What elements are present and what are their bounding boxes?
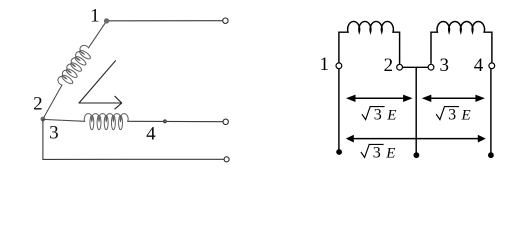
svg-text:E: E	[385, 145, 395, 161]
inductor winding 1-2 (diagonal coil)	[56, 44, 95, 90]
terminal 1 (open circle)	[336, 63, 342, 69]
svg-text:E: E	[461, 108, 471, 124]
voltage arrow between 1 and 2/3	[354, 97, 405, 99]
svg-text:3: 3	[448, 107, 456, 124]
junction dot under 2-3	[414, 152, 420, 158]
svg-text:3: 3	[49, 123, 59, 144]
svg-text:4: 4	[474, 55, 484, 76]
terminal 4 (open circle)	[489, 63, 495, 69]
voltage arrow between 2/3 and 4	[430, 97, 477, 99]
wire node1 to top terminal	[109, 20, 223, 22]
svg-text:E: E	[386, 108, 396, 124]
wire 2-3 midpoint down to node	[415, 67, 417, 153]
wire node2 down	[42, 119, 44, 159]
svg-text:2: 2	[384, 55, 394, 76]
phase angle symbol (slanted line)	[79, 61, 116, 103]
value label sqrt(3)E (left span)	[362, 107, 396, 124]
terminal (bottom phase lead)	[224, 157, 229, 162]
junction dot under terminal 1	[336, 149, 342, 155]
value label sqrt(3)E (bottom span)	[361, 144, 395, 161]
svg-text:4: 4	[146, 123, 156, 144]
wire terminal1 down to node	[338, 69, 340, 150]
wire node2/3 to coil 3-4	[43, 119, 85, 121]
value label sqrt(3)E (right span)	[436, 107, 470, 124]
wire diagonal coil to node1	[89, 21, 107, 48]
terminal (middle phase lead)	[223, 119, 228, 124]
node 2 (dot)	[41, 117, 46, 122]
inductor winding 1-2 (right figure)	[339, 21, 400, 64]
voltage arrow across bottom	[352, 138, 479, 140]
wire bottom to terminal	[43, 158, 224, 160]
terminal 2 (open circle)	[397, 64, 403, 70]
svg-text:1: 1	[90, 5, 100, 26]
terminal 3 (open circle)	[428, 64, 434, 70]
inductor winding 3-4 (right figure)	[431, 21, 492, 63]
wire coil to node4 and middle terminal	[128, 120, 223, 122]
inductor winding 3-4 (horizontal coil)	[84, 114, 128, 130]
svg-text:3: 3	[374, 107, 382, 124]
wire joining terminals 2 and 3	[403, 66, 429, 68]
wire terminal4 down to node	[490, 69, 492, 153]
svg-text:3: 3	[373, 144, 381, 161]
svg-text:1: 1	[319, 54, 329, 75]
node 4 (dot)	[163, 119, 167, 123]
node 1 (dot)	[104, 18, 109, 23]
junction dot under terminal 4	[488, 152, 494, 158]
terminal (top phase lead)	[223, 18, 228, 23]
svg-text:3: 3	[439, 55, 449, 76]
svg-text:2: 2	[33, 94, 43, 115]
phase arrow (horizontal with open head)	[79, 96, 122, 109]
wire diagonal node2 to coil	[43, 85, 62, 119]
